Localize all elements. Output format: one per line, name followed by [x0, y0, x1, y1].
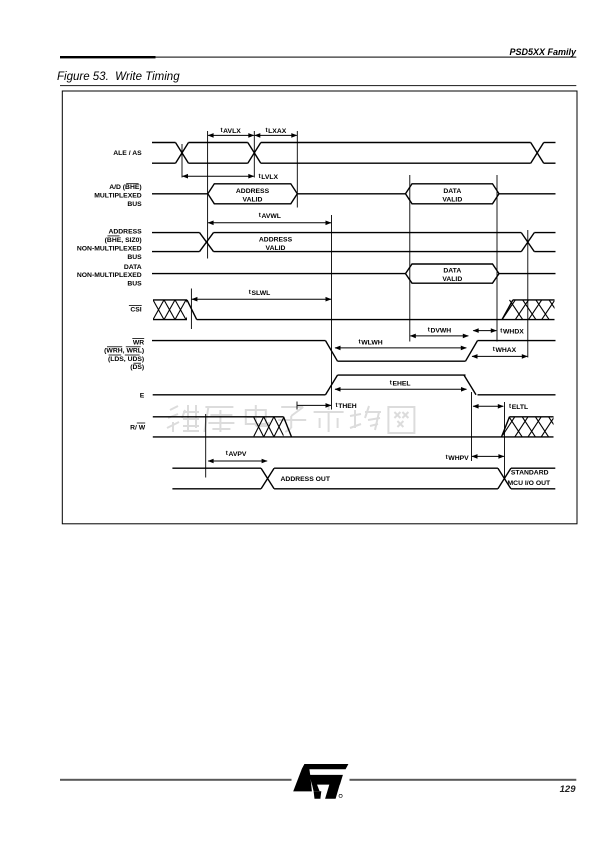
- svg-text:ADDRESS OUT: ADDRESS OUT: [281, 476, 331, 483]
- svg-text:CSI: CSI: [130, 307, 141, 314]
- svg-text:(DS): (DS): [130, 364, 144, 371]
- svg-text:WHAX: WHAX: [495, 347, 516, 354]
- svg-text:(LDS, UDS): (LDS, UDS): [108, 356, 144, 363]
- svg-text:DATA: DATA: [124, 264, 142, 271]
- svg-text:VALID: VALID: [442, 276, 462, 283]
- svg-text:VALID: VALID: [243, 196, 263, 203]
- svg-text:STANDARD: STANDARD: [511, 469, 549, 476]
- svg-text:LXAX: LXAX: [268, 128, 287, 135]
- svg-text:DATA: DATA: [443, 188, 461, 195]
- svg-text:DVWH: DVWH: [430, 328, 451, 335]
- svg-text:EHEL: EHEL: [392, 381, 410, 388]
- svg-text:AVPV: AVPV: [228, 451, 246, 458]
- svg-text:(BHE, SIZ0): (BHE, SIZ0): [105, 237, 142, 244]
- svg-text:VALID: VALID: [442, 196, 462, 203]
- svg-text:SLWL: SLWL: [251, 290, 270, 297]
- svg-text:BUS: BUS: [127, 281, 142, 288]
- svg-text:VALID: VALID: [266, 245, 286, 252]
- svg-text:BUS: BUS: [127, 201, 142, 208]
- svg-text:ADDRESS: ADDRESS: [108, 229, 142, 236]
- svg-text:MULTIPLEXED: MULTIPLEXED: [94, 193, 142, 200]
- svg-text:AVWL: AVWL: [261, 213, 281, 220]
- svg-text:A/D (BHE): A/D (BHE): [109, 184, 141, 191]
- svg-text:(WRH, WRL): (WRH, WRL): [104, 348, 144, 355]
- svg-text:R/ W: R/ W: [130, 424, 146, 431]
- svg-text:WLWH: WLWH: [361, 340, 383, 347]
- svg-text:THEH: THEH: [338, 403, 357, 410]
- svg-text:NON-MULTIPLEXED: NON-MULTIPLEXED: [77, 245, 142, 252]
- svg-text:ADDRESS: ADDRESS: [236, 188, 270, 195]
- svg-text:ADDRESS: ADDRESS: [259, 237, 293, 244]
- svg-text:NON-MULTIPLEXED: NON-MULTIPLEXED: [77, 272, 142, 279]
- svg-text:ELTL: ELTL: [512, 404, 528, 411]
- svg-text:MCU I/O OUT: MCU I/O OUT: [508, 480, 552, 487]
- svg-text:AVLX: AVLX: [223, 128, 241, 135]
- svg-text:BUS: BUS: [127, 254, 142, 261]
- svg-text:WHDX: WHDX: [503, 328, 524, 335]
- svg-text:DATA: DATA: [443, 267, 461, 274]
- svg-text:WR: WR: [133, 339, 144, 346]
- svg-text:ALE / AS: ALE / AS: [113, 150, 142, 157]
- svg-text:LVLX: LVLX: [261, 174, 278, 181]
- svg-text:WHPV: WHPV: [448, 455, 469, 462]
- svg-text:E: E: [140, 392, 145, 399]
